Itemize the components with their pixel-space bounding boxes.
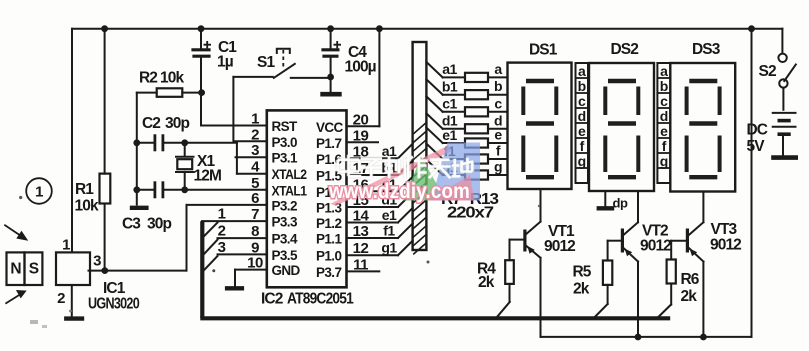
- svg-text:2k: 2k: [478, 274, 495, 291]
- svg-text:14: 14: [353, 208, 370, 225]
- svg-text:C2: C2: [142, 115, 160, 132]
- svg-text:30p: 30p: [147, 216, 171, 233]
- svg-text:R6: R6: [681, 271, 700, 288]
- svg-text:VCC: VCC: [316, 120, 344, 135]
- svg-text:9012: 9012: [640, 238, 671, 255]
- svg-text:UGN3020: UGN3020: [88, 296, 139, 313]
- svg-text:a1: a1: [442, 61, 457, 77]
- svg-text:P3.2: P3.2: [272, 198, 297, 213]
- svg-text:DC: DC: [747, 122, 768, 139]
- svg-text:RST: RST: [272, 119, 299, 134]
- svg-text:dp: dp: [613, 196, 628, 211]
- svg-text:P1.7: P1.7: [316, 136, 341, 151]
- svg-text:g: g: [578, 153, 586, 169]
- svg-text:C3: C3: [122, 216, 141, 233]
- svg-text:1µ: 1µ: [217, 54, 233, 71]
- svg-text:11: 11: [353, 256, 368, 273]
- svg-text:d: d: [578, 108, 586, 124]
- svg-text:4: 4: [251, 159, 260, 176]
- svg-text:R2: R2: [139, 70, 157, 87]
- svg-text:P1.0: P1.0: [316, 249, 341, 264]
- svg-text:b1: b1: [442, 79, 458, 95]
- svg-text:6: 6: [251, 190, 259, 207]
- svg-text:2k: 2k: [573, 281, 590, 298]
- svg-text:DS3: DS3: [692, 41, 721, 58]
- svg-text:9012: 9012: [544, 238, 575, 255]
- svg-text:c: c: [494, 95, 502, 111]
- svg-text:S2: S2: [759, 63, 776, 80]
- svg-text:2k: 2k: [681, 288, 698, 305]
- svg-text:P1.1: P1.1: [316, 232, 342, 247]
- svg-text:220x7: 220x7: [447, 205, 493, 222]
- svg-text:c: c: [660, 93, 668, 109]
- svg-text:XTAL1: XTAL1: [272, 183, 308, 198]
- svg-text:IC2: IC2: [261, 291, 283, 308]
- svg-text:2: 2: [251, 126, 259, 143]
- svg-text:S: S: [29, 261, 39, 278]
- svg-text:7: 7: [251, 206, 259, 223]
- svg-text:30p: 30p: [165, 115, 189, 132]
- svg-text:P3.1: P3.1: [272, 151, 298, 166]
- svg-text:R5: R5: [573, 264, 592, 281]
- svg-text:1: 1: [251, 111, 259, 128]
- svg-text:e: e: [494, 127, 502, 143]
- svg-text:AT89C2051: AT89C2051: [287, 291, 354, 308]
- svg-text:3: 3: [218, 239, 226, 256]
- svg-text:a: a: [494, 61, 502, 77]
- svg-text:20: 20: [353, 111, 369, 128]
- svg-text:13: 13: [353, 223, 369, 240]
- svg-text:f1: f1: [383, 223, 395, 239]
- svg-text:P3.0: P3.0: [272, 135, 297, 150]
- svg-text:12M: 12M: [194, 168, 221, 185]
- svg-text:d: d: [660, 108, 668, 124]
- svg-text:a1: a1: [382, 143, 397, 159]
- svg-text:P3.4: P3.4: [272, 232, 298, 247]
- svg-text:DS2: DS2: [611, 41, 639, 58]
- svg-text:P3.7: P3.7: [316, 265, 341, 280]
- svg-text:1: 1: [218, 206, 226, 223]
- svg-text:www.dzdiy.com: www.dzdiy.com: [328, 179, 470, 203]
- svg-text:P3.3: P3.3: [272, 215, 298, 230]
- svg-text:DS1: DS1: [529, 42, 558, 59]
- svg-text:VT3: VT3: [711, 221, 738, 238]
- svg-text:2: 2: [218, 223, 226, 240]
- svg-text:XTAL2: XTAL2: [272, 167, 307, 182]
- svg-text:19: 19: [353, 127, 369, 144]
- svg-text:9012: 9012: [710, 237, 741, 254]
- svg-text:S1: S1: [257, 54, 275, 71]
- svg-text:g: g: [660, 153, 668, 169]
- svg-text:10: 10: [247, 255, 263, 272]
- svg-text:b: b: [660, 78, 668, 94]
- svg-text:8: 8: [251, 223, 259, 240]
- svg-text:g1: g1: [381, 240, 397, 256]
- svg-text:10k: 10k: [160, 70, 184, 87]
- svg-text:a: a: [578, 63, 586, 79]
- svg-text:5V: 5V: [747, 138, 766, 155]
- svg-text:e1: e1: [442, 127, 457, 143]
- svg-text:c: c: [578, 93, 586, 109]
- svg-text:1: 1: [62, 237, 70, 254]
- svg-text:100µ: 100µ: [345, 59, 376, 76]
- svg-text:e1: e1: [382, 207, 397, 223]
- svg-text:N: N: [10, 261, 21, 278]
- svg-text:GND: GND: [272, 263, 301, 278]
- svg-text:c1: c1: [442, 96, 457, 112]
- svg-text:3: 3: [93, 253, 101, 270]
- svg-text:g: g: [494, 159, 502, 175]
- svg-text:e: e: [660, 123, 668, 139]
- svg-text:P1.2: P1.2: [316, 216, 341, 231]
- svg-text:R1: R1: [75, 181, 94, 198]
- svg-text:P3.5: P3.5: [272, 248, 298, 263]
- svg-text:10k: 10k: [75, 198, 99, 215]
- svg-text:b: b: [494, 78, 502, 94]
- svg-text:IC1: IC1: [103, 280, 126, 297]
- svg-text:1: 1: [35, 184, 43, 201]
- svg-text:3: 3: [251, 142, 259, 159]
- svg-text:a: a: [660, 63, 668, 79]
- svg-text:12: 12: [353, 240, 369, 257]
- svg-text:2: 2: [57, 290, 65, 307]
- svg-text:e: e: [578, 123, 586, 139]
- svg-text:b: b: [578, 78, 586, 94]
